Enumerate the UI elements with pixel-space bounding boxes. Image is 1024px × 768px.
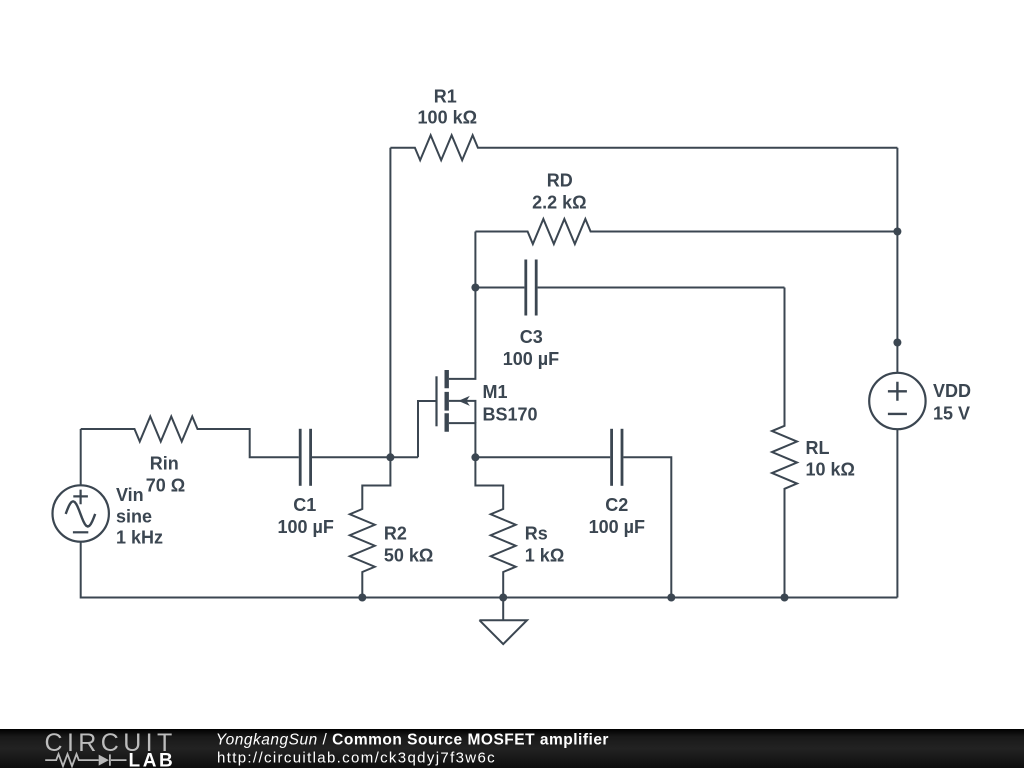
wire [623,457,671,597]
svg-text:VDD: VDD [933,381,971,401]
svg-text:C1: C1 [293,495,316,515]
svg-text:Rs: Rs [525,524,548,544]
wire [896,429,898,597]
voltage source Vin [52,485,108,541]
node vdd-rd [893,228,901,236]
resistor R2 [350,457,391,597]
logo zigzag-diode [45,754,126,766]
wire [312,456,418,458]
resistor Rin [81,417,299,458]
svg-text:R1: R1 [434,86,457,106]
svg-text:2.2 kΩ: 2.2 kΩ [532,193,586,213]
svg-text:100 µF: 100 µF [589,517,645,537]
resistor R1 [390,135,897,160]
svg-text:Vin: Vin [116,485,144,505]
wire [80,429,82,485]
svg-text:50 kΩ: 50 kΩ [384,546,433,566]
node drain [471,284,479,292]
node input [386,453,394,461]
voltage source VDD [869,373,925,429]
capacitor C3 [526,260,536,316]
svg-text:70 Ω: 70 Ω [146,475,185,495]
svg-text:RD: RD [547,171,573,191]
resistor Rs [475,457,515,597]
capacitor C1 [300,429,310,486]
svg-text:1 kΩ: 1 kΩ [525,546,564,566]
svg-text:C2: C2 [605,495,628,515]
node gnd-rs [499,594,507,602]
resistor RL [772,288,797,598]
svg-text:100 µF: 100 µF [503,349,559,369]
svg-text:http://circuitlab.com/ck3qdyj7: http://circuitlab.com/ck3qdyj7f3w6c [217,750,496,767]
svg-text:RL: RL [806,438,830,458]
node gnd-rl [781,594,789,602]
wire [475,287,524,289]
svg-text:15 V: 15 V [933,404,970,424]
svg-text:Rin: Rin [150,453,179,473]
svg-text:YongkangSun / Common Source MO: YongkangSun / Common Source MOSFET ampli… [216,732,609,749]
svg-text:M1: M1 [483,382,508,402]
svg-text:100 µF: 100 µF [277,517,333,537]
svg-text:BS170: BS170 [483,404,538,424]
node gnd-c2 [667,594,675,602]
wire [896,148,898,373]
wire [475,456,610,458]
wire [538,287,785,289]
resistor RD [475,219,897,244]
svg-text:C3: C3 [520,327,543,347]
capacitor C2 [612,429,622,486]
transistor M1 [418,232,475,458]
node vdd-top [893,339,901,347]
node gnd-r2 [358,594,366,602]
svg-text:sine: sine [116,506,152,526]
svg-text:10 kΩ: 10 kΩ [806,460,855,480]
wire [81,542,898,598]
svg-text:1 kHz: 1 kHz [116,528,163,548]
wire [389,148,391,458]
svg-text:100 kΩ: 100 kΩ [418,108,477,128]
ground [479,598,527,645]
node source [471,453,479,461]
svg-text:R2: R2 [384,524,407,544]
svg-text:LAB: LAB [129,751,176,768]
